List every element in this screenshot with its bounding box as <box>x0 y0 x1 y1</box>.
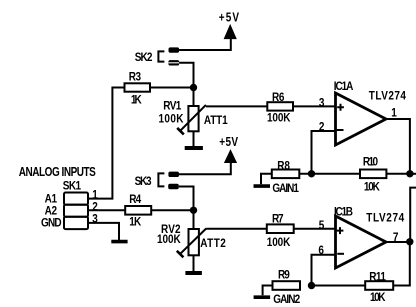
svg-text:GAIN2: GAIN2 <box>273 293 300 306</box>
svg-text:SK1: SK1 <box>63 180 81 193</box>
svg-text:2: 2 <box>319 121 325 134</box>
svg-text:R11: R11 <box>369 271 386 284</box>
svg-text:1K: 1K <box>129 216 141 229</box>
svg-text:R10: R10 <box>363 156 378 169</box>
svg-text:RV1: RV1 <box>163 100 181 113</box>
svg-text:ANALOG INPUTS: ANALOG INPUTS <box>19 165 96 180</box>
svg-text:TLV274: TLV274 <box>369 90 407 103</box>
svg-text:R8: R8 <box>277 160 290 173</box>
svg-text:10K: 10K <box>364 181 380 194</box>
svg-text:3: 3 <box>319 97 325 110</box>
svg-text:6: 6 <box>318 244 324 257</box>
svg-text:R6: R6 <box>272 91 284 104</box>
svg-text:R7: R7 <box>272 213 284 226</box>
svg-text:3: 3 <box>92 213 98 226</box>
svg-text:1K: 1K <box>131 94 142 107</box>
svg-text:TLV274: TLV274 <box>366 212 405 225</box>
svg-text:100K: 100K <box>159 113 184 126</box>
svg-text:100K: 100K <box>267 236 291 249</box>
svg-text:R9: R9 <box>278 269 290 282</box>
svg-text:IC1B: IC1B <box>334 206 353 219</box>
svg-text:+5V: +5V <box>219 135 238 150</box>
svg-text:ATT1: ATT1 <box>204 114 228 127</box>
svg-text:5: 5 <box>319 219 325 232</box>
svg-text:IC1A: IC1A <box>334 80 354 93</box>
svg-text:SK2: SK2 <box>135 52 153 65</box>
svg-text:100K: 100K <box>267 112 291 125</box>
svg-text:7: 7 <box>393 231 399 244</box>
svg-text:1: 1 <box>391 107 397 120</box>
svg-text:R4: R4 <box>129 193 142 206</box>
svg-text:GAIN1: GAIN1 <box>272 182 299 195</box>
svg-text:GND: GND <box>41 217 62 230</box>
svg-text:+5V: +5V <box>219 10 239 25</box>
svg-text:SK3: SK3 <box>135 175 152 188</box>
svg-text:10K: 10K <box>370 291 386 304</box>
svg-text:100K: 100K <box>157 233 181 246</box>
svg-text:ATT2: ATT2 <box>200 237 226 250</box>
svg-text:R3: R3 <box>129 71 141 84</box>
